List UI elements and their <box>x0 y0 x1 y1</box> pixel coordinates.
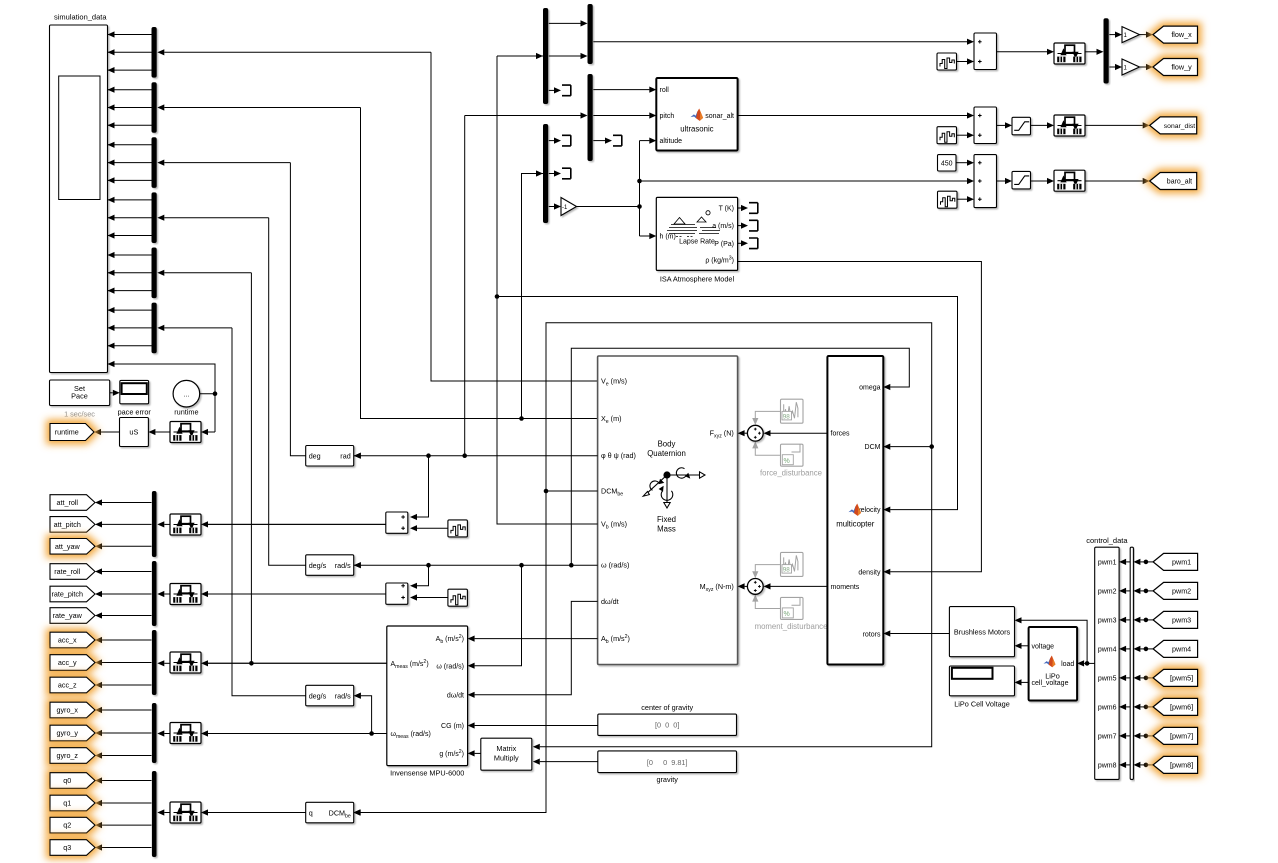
wire gain -1 to altitude net <box>577 206 640 208</box>
svg-text:dω/dt: dω/dt <box>447 692 464 699</box>
block ISA Atmosphere Model <box>656 197 737 270</box>
rate transition RT group 4 <box>170 723 201 744</box>
constant gravity <box>598 751 737 773</box>
svg-text:[pwm5]: [pwm5] <box>1170 674 1193 683</box>
wire DCM to multicopter port <box>890 446 932 448</box>
junction X_e BarD <box>519 416 524 421</box>
wire cog to CG <box>475 725 598 727</box>
subsystem Body Quaternion Fixed Mass 6DOF <box>598 356 738 665</box>
junction phi barC <box>462 453 467 458</box>
wire X_e into BarD <box>522 174 544 419</box>
svg-text:moments: moments <box>831 584 860 591</box>
svg-text:sonar_dist: sonar_dist <box>1164 123 1195 130</box>
saturation SAT1 <box>1012 117 1031 135</box>
svg-text:Lapse Rate: Lapse Rate <box>679 239 715 246</box>
rate transition RT group 2 <box>170 584 201 605</box>
svg-text:acc_x: acc_x <box>58 636 77 645</box>
demux out group 2 <box>152 561 157 626</box>
subsystem LiPo <box>1029 627 1078 701</box>
svg-text:[0 0 9.81]: [0 0 9.81] <box>647 758 688 767</box>
svg-text:load: load <box>1061 661 1074 668</box>
inport [pwm6] <box>1153 698 1198 715</box>
wire deg/s#2 riser <box>232 328 306 696</box>
svg-text:ISA Atmosphere Model: ISA Atmosphere Model <box>660 275 735 284</box>
outport q3 <box>50 840 95 856</box>
wire to outport q2 <box>102 824 152 826</box>
wire to outport q1 <box>102 802 152 804</box>
sum force <box>747 425 763 441</box>
svg-text:deg/s: deg/s <box>309 691 327 700</box>
wire rad2deg riser <box>290 163 305 456</box>
sum sonar <box>974 107 997 144</box>
svg-text:q1: q1 <box>63 799 71 808</box>
svg-text:pwm3: pwm3 <box>1172 616 1191 625</box>
wire demux output to simulation_data input 12 <box>108 235 152 237</box>
wire force scope to sum <box>755 411 780 419</box>
wire pwm5 port to bus <box>1140 677 1153 679</box>
svg-text:h (m): h (m) <box>660 234 676 241</box>
demux Demux4 <box>152 192 157 243</box>
wire BarE to gain1 <box>1109 34 1115 36</box>
constant 450 <box>938 155 957 171</box>
wire RT2 to demux bar <box>164 593 170 595</box>
block rad/s to deg/s 2 <box>306 685 354 706</box>
demux Demux2 <box>152 82 157 133</box>
demux BarA <box>543 8 548 104</box>
wire to outport acc_y <box>102 662 152 664</box>
svg-text:att_pitch: att_pitch <box>54 520 81 529</box>
wire altitude to ultrasonic <box>640 140 650 142</box>
display LiPo Cell Voltage <box>949 666 1014 696</box>
wire into Demux5 from x=251.4 <box>164 272 251 274</box>
svg-text:pwm5: pwm5 <box>1098 675 1117 682</box>
demux out group 3 <box>152 630 157 695</box>
wire demux output to simulation_data input 13 <box>108 254 152 256</box>
wire clock to junction <box>200 394 215 432</box>
wire to outport att_yaw <box>102 545 152 547</box>
svg-text:uS: uS <box>129 428 138 437</box>
rate transition RT group 3 <box>170 652 201 673</box>
junction altitude-baro <box>637 179 642 184</box>
svg-text:pwm7: pwm7 <box>1098 733 1117 740</box>
svg-text:[0 0 0]: [0 0 0] <box>655 721 679 730</box>
wire h to ISA <box>640 235 650 237</box>
wire DCM riser up <box>540 323 932 747</box>
svg-text:450: 450 <box>941 160 953 167</box>
wire baro feed <box>640 180 968 182</box>
wire demux output to simulation_data input 17 <box>108 327 152 329</box>
svg-text:pace error: pace error <box>118 408 152 417</box>
wire to outport acc_z <box>102 684 152 686</box>
svg-text:Multiply: Multiply <box>494 754 519 763</box>
wire to outport att_pitch <box>102 523 152 525</box>
commented scope force <box>781 444 804 466</box>
wire to outport att_roll <box>102 502 152 504</box>
wire feed to RT2 <box>208 593 386 595</box>
outport flow_x <box>1153 26 1198 43</box>
block Brushless Motors <box>949 607 1014 657</box>
wire sonar sum to sat1 <box>997 124 1006 126</box>
wire A_b line <box>475 638 598 640</box>
block Matrix Multiply <box>481 738 532 770</box>
svg-text:98: 98 <box>783 413 791 420</box>
wire 450 to baro sum <box>957 162 968 164</box>
svg-text:rate_yaw: rate_yaw <box>53 611 83 620</box>
svg-text:gyro_x: gyro_x <box>56 706 78 715</box>
outport acc_x <box>50 632 95 648</box>
wire to outport rate_yaw <box>102 615 152 617</box>
wire demux output to simulation_data input 2 <box>108 51 152 53</box>
svg-text:1 sec/sec: 1 sec/sec <box>64 410 95 419</box>
outport acc_y <box>50 655 95 671</box>
terminator ISA y=208 <box>749 203 758 214</box>
terminator T1 <box>562 85 571 96</box>
svg-text:Quaternion: Quaternion <box>647 449 686 458</box>
svg-text:pwm1: pwm1 <box>1172 558 1191 567</box>
wire control to BM top <box>1022 620 1088 663</box>
wire phi to BarC riser <box>464 116 466 456</box>
junction acc bar5 <box>249 661 254 666</box>
wire flow sum to RT6 <box>997 51 1048 53</box>
wire force pct to sum <box>755 448 780 456</box>
svg-text:omega: omega <box>859 385 881 392</box>
junction phi sum1 <box>426 453 431 458</box>
rate transition RT group 1 <box>170 514 201 535</box>
svg-text:DCM: DCM <box>865 444 881 451</box>
terminator T2 <box>613 135 622 146</box>
wire matrix out to g <box>475 752 481 754</box>
wire deg/s#1 riser <box>269 218 306 566</box>
wire BarC out3 to terminator <box>593 140 605 142</box>
svg-text:rad: rad <box>340 452 350 461</box>
wire gain1 to flow_x <box>1140 34 1147 36</box>
wire pwm8 port to bus <box>1140 764 1153 766</box>
outport q2 <box>50 817 95 833</box>
inport pwm3 <box>1153 611 1198 628</box>
inport pwm2 <box>1153 582 1198 599</box>
wire pwm7 port to bus <box>1140 735 1153 737</box>
block rad/s to deg/s 1 <box>306 555 354 576</box>
svg-text:pwm4: pwm4 <box>1172 645 1191 654</box>
wire omega_meas out <box>208 733 387 735</box>
wire RT5 to demux bar <box>164 812 170 814</box>
wire V_b into BarA <box>497 55 543 57</box>
svg-text:pwm8: pwm8 <box>1098 762 1117 769</box>
wire pwm2 port to bus <box>1140 590 1153 592</box>
svg-text:%: % <box>784 458 790 465</box>
junction omega invensense <box>519 563 524 568</box>
svg-text:q2: q2 <box>63 821 71 830</box>
wire BarD out3 to gain <box>549 206 554 208</box>
svg-text:Fixed: Fixed <box>657 515 676 524</box>
svg-text:rate_pitch: rate_pitch <box>51 590 83 599</box>
wire bus to control_data pwm5 <box>1126 677 1130 679</box>
svg-text:gyro_y: gyro_y <box>56 729 78 738</box>
outport rate_pitch <box>50 586 95 602</box>
wire domega line <box>475 601 598 694</box>
junction V_b velocity <box>495 294 500 299</box>
wire rho to density <box>738 262 982 572</box>
wire to outport gyro_y <box>102 732 152 734</box>
rate transition RT runtime <box>170 422 201 443</box>
wire demux output to simulation_data input 14 <box>108 272 152 274</box>
wire baro sum to sat2 <box>997 180 1006 182</box>
gain G1 <box>1122 27 1140 43</box>
wire demux output to simulation_data input 18 <box>108 345 152 347</box>
wire bus to control_data pwm4 <box>1126 648 1130 650</box>
demux Demux1 <box>152 27 157 78</box>
wire sat2 to RT8 <box>1031 180 1048 182</box>
svg-text:q0: q0 <box>63 776 71 785</box>
demux out group 1 <box>152 491 157 557</box>
wire junction to RT runtime <box>208 431 215 433</box>
wire to outport gyro_z <box>102 755 152 757</box>
outport flow_y <box>1153 59 1198 76</box>
svg-text:baro_alt: baro_alt <box>1167 179 1192 186</box>
wire phi theta psi line <box>354 455 598 457</box>
wire moment scope to sum <box>755 565 780 573</box>
svg-text:%: % <box>784 611 790 618</box>
outport acc_z <box>50 677 95 693</box>
wire gravity to matrix <box>540 761 598 763</box>
wire forces line <box>770 432 827 434</box>
svg-text:P (Pa): P (Pa) <box>714 241 734 248</box>
wire demux output to simulation_data input 6 <box>108 124 152 126</box>
svg-text:flow_y: flow_y <box>1171 63 1192 72</box>
wire to outport rate_pitch <box>102 593 152 595</box>
wire BarA out3 to terminator <box>549 89 554 91</box>
demux out group 4 <box>152 703 157 763</box>
wire BM to rotors <box>890 633 949 635</box>
wire RT8 to baro_alt <box>1085 180 1143 182</box>
wire BarA out1 to MuxB <box>549 22 581 24</box>
wire BarC pitch to ultrasonic <box>593 115 649 117</box>
junction gyro degs2 <box>369 731 374 736</box>
rate transition RT7 <box>1054 115 1085 136</box>
junction DCM <box>544 489 549 494</box>
svg-text:T (K): T (K) <box>719 206 734 213</box>
rate transition RT6 <box>1054 43 1085 64</box>
svg-text:rad/s: rad/s <box>335 691 351 700</box>
wire RT4 to demux bar <box>164 733 170 735</box>
wire feed to RT5 <box>208 812 306 814</box>
wire demux output to simulation_data input 3 <box>108 69 152 71</box>
clock runtime <box>173 380 200 407</box>
svg-text:moment_disturbance: moment_disturbance <box>755 622 828 631</box>
wire control_data out to load <box>1084 662 1095 664</box>
svg-text:deg: deg <box>309 452 321 461</box>
wire phi into BarC <box>465 115 581 117</box>
demux Demux6 <box>152 303 157 354</box>
wire N3 to baro sum <box>957 198 968 200</box>
wire pwm1 port to bus <box>1140 561 1153 563</box>
sum moment <box>747 579 763 595</box>
wire pwm4 port to bus <box>1140 648 1153 650</box>
svg-text:98: 98 <box>783 567 791 574</box>
svg-text:rad/s: rad/s <box>335 561 351 570</box>
noise rate <box>448 589 468 606</box>
junction runtime <box>213 391 218 396</box>
inport pwm1 <box>1153 553 1198 570</box>
demux BarE <box>1104 18 1109 83</box>
wire noise att to sum <box>417 527 448 529</box>
sum flow <box>974 33 997 70</box>
svg-text:deg/s: deg/s <box>309 561 327 570</box>
svg-text:altitude: altitude <box>660 138 683 145</box>
wire moment pct to sum <box>755 601 780 609</box>
svg-text:LiPo: LiPo <box>1045 672 1060 681</box>
wire demux output to simulation_data input 5 <box>108 107 152 109</box>
wire DCM_be line <box>546 490 598 492</box>
wire qDCM out <box>208 812 306 814</box>
wire LiPo cell_voltage to display <box>1022 681 1029 683</box>
svg-text:acc_z: acc_z <box>58 681 77 690</box>
subsystem simulation_data <box>50 25 108 373</box>
signal editor moment_disturbance <box>781 552 804 576</box>
wire RT7 to sonar_dist <box>1085 124 1143 126</box>
wire demux output to simulation_data input 1 <box>108 34 152 36</box>
noise att <box>448 520 468 537</box>
subsystem ultrasonic <box>656 78 737 151</box>
svg-text:pwm1: pwm1 <box>1098 559 1117 566</box>
wire feed to RT3 <box>208 662 387 664</box>
gain -1 <box>561 198 577 216</box>
svg-text:-1: -1 <box>562 205 568 211</box>
wire BarC roll to ultrasonic <box>593 89 649 91</box>
wire ISA out y=243.3 to terminator <box>738 242 741 244</box>
terminator T3 <box>562 135 571 146</box>
wire sum att out <box>208 523 386 525</box>
wire uS to runtime port <box>101 431 120 433</box>
wire BarA out2 to MuxB <box>549 55 581 57</box>
svg-text:rotors: rotors <box>863 632 881 639</box>
wire omega to multicopter <box>571 348 909 565</box>
wire N2 to sonar sum <box>957 134 968 136</box>
wire acc riser <box>250 273 252 664</box>
svg-text:sonar_alt: sonar_alt <box>705 113 734 120</box>
demux Demux3 <box>152 137 157 188</box>
wire A_meas out <box>208 662 387 664</box>
svg-text:center of gravity: center of gravity <box>641 703 693 712</box>
outport att_pitch <box>50 517 95 533</box>
wire bus to control_data pwm8 <box>1126 764 1130 766</box>
subsystem multicopter <box>827 356 883 665</box>
svg-text:φ θ ψ (rad): φ θ ψ (rad) <box>601 451 636 460</box>
sum baro <box>974 155 997 208</box>
svg-text:pitch: pitch <box>660 113 675 120</box>
svg-text:pwm3: pwm3 <box>1098 617 1117 624</box>
rate transition RT8 <box>1054 170 1085 191</box>
wire pwm3 port to bus <box>1140 619 1153 621</box>
wire into Demux3 from x=290.4 <box>164 162 290 164</box>
wire RT3 to demux bar <box>164 662 170 664</box>
inport [pwm5] <box>1153 669 1198 686</box>
wire into Demux1 from x=431 <box>164 51 431 53</box>
svg-text:gravity: gravity <box>656 775 678 784</box>
svg-text:Invensense MPU-6000: Invensense MPU-6000 <box>390 768 464 777</box>
svg-text:ultrasonic: ultrasonic <box>680 125 713 134</box>
commented scope moment <box>781 597 804 619</box>
wire feed to RT4 <box>208 733 387 735</box>
outport q0 <box>50 773 95 789</box>
noise N3 <box>938 191 958 208</box>
wire sum to 6DOF moment <box>745 585 748 587</box>
block Set Pace <box>50 380 110 406</box>
wire gain2 to flow_y <box>1140 66 1147 68</box>
svg-text:forces: forces <box>831 431 851 438</box>
outport gyro_x <box>50 702 95 718</box>
outport runtime <box>50 424 94 441</box>
outport att_roll <box>50 495 95 511</box>
wire ISA out y=208 to terminator <box>738 207 741 209</box>
wire RT runtime to uS <box>155 431 170 433</box>
svg-text:density: density <box>858 569 881 576</box>
wire bus to control_data pwm3 <box>1126 619 1130 621</box>
wire feed to RT1 <box>208 523 386 525</box>
wire sonar_alt to sum <box>738 115 967 117</box>
wire bus to control_data pwm1 <box>1126 561 1130 563</box>
gain G2 <box>1122 59 1140 75</box>
wire to outport q0 <box>102 780 152 782</box>
wire moments line <box>770 585 827 587</box>
wire sum to 6DOF force <box>745 432 748 434</box>
noise N1 <box>937 53 957 70</box>
svg-text:simulation_data: simulation_data <box>54 13 107 22</box>
svg-text:gyro_z: gyro_z <box>56 751 78 760</box>
wire DCM down to qDCM <box>360 491 546 813</box>
svg-text:...: ... <box>183 392 189 399</box>
svg-text:rate_roll: rate_roll <box>54 567 80 576</box>
subsystem Invensense MPU-6000 <box>387 626 468 766</box>
outport gyro_y <box>50 725 95 741</box>
constant center of gravity <box>598 714 737 735</box>
outport baro_alt <box>1150 173 1197 190</box>
wire runtime to simulation_data input 19 <box>108 364 216 394</box>
svg-text:ω (rad/s): ω (rad/s) <box>436 663 464 670</box>
wire demux output to simulation_data input 10 <box>108 199 152 201</box>
saturation SAT2 <box>1012 171 1031 189</box>
subsystem control_data <box>1095 547 1119 779</box>
sum att <box>386 512 408 533</box>
outport rate_roll <box>50 564 95 580</box>
terminator ISA y=225.6 <box>749 220 758 231</box>
svg-text:att_roll: att_roll <box>56 498 78 507</box>
demux BarD <box>543 124 548 223</box>
wire demux output to simulation_data input 4 <box>108 89 152 91</box>
signal editor force_disturbance <box>781 399 804 423</box>
wire omega to sum2 <box>417 565 429 586</box>
wire omega to invensense <box>475 565 522 666</box>
wire LiPo voltage to BM <box>1022 645 1029 647</box>
svg-text:roll: roll <box>660 87 670 94</box>
svg-text:a (m/s): a (m/s) <box>712 223 734 230</box>
wire to outport q3 <box>102 847 152 849</box>
junction omega sum2 <box>426 563 431 568</box>
svg-text:cell_voltage: cell_voltage <box>1032 680 1069 687</box>
wire into Demux4 from x=268.7 <box>164 217 268 219</box>
wire phi to sum1 <box>417 456 429 517</box>
demux BarC <box>588 74 593 161</box>
junction omega multicopter <box>569 563 574 568</box>
wire Set Pace to pace error <box>110 392 113 394</box>
wire demux output to simulation_data input 11 <box>108 217 152 219</box>
svg-text:pwm4: pwm4 <box>1098 646 1117 653</box>
rate transition RT group 5 <box>170 802 201 823</box>
inport [pwm7] <box>1153 727 1198 744</box>
svg-text:Body: Body <box>658 440 676 449</box>
outport gyro_z <box>50 748 95 764</box>
wire demux output to simulation_data input 16 <box>108 309 152 311</box>
